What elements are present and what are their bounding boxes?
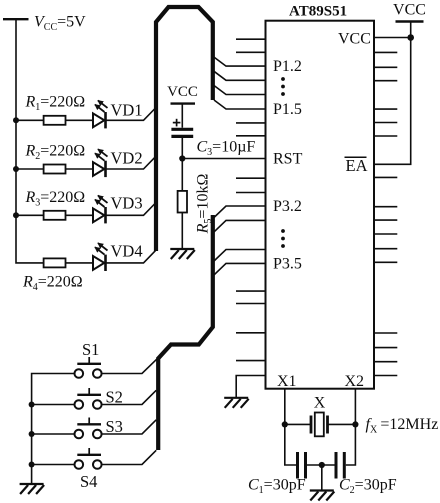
node junction dot switch rail S4: [29, 462, 35, 468]
wire X1 to crystal: [285, 423, 311, 425]
LED VD2: [93, 149, 108, 177]
node VCC bar (reset circuit): [171, 102, 196, 104]
svg-text:VCC: VCC: [393, 2, 426, 19]
crystal X: [311, 413, 328, 437]
pin stub left 10: [236, 360, 266, 362]
svg-text:VD1: VD1: [111, 101, 143, 120]
node junction dot rail R3: [13, 212, 19, 218]
pin stub right 15: [374, 361, 397, 363]
node junction dot switch rail S3: [29, 431, 35, 437]
wire rail to R2: [16, 168, 44, 170]
switch S1: [75, 357, 102, 378]
svg-text:C2=30pF: C2=30pF: [339, 477, 397, 497]
node VCC supply bar top-left: [3, 18, 29, 20]
svg-text:P3.2: P3.2: [273, 198, 302, 215]
wire pin P3.2 to bus: [214, 206, 266, 218]
pin stub right 12: [374, 261, 397, 263]
label P3 ellipsis dots: [281, 229, 285, 248]
ground (IC GND pin): [224, 398, 249, 408]
wire C3 to node: [181, 136, 183, 158]
svg-text:VCC: VCC: [338, 31, 371, 48]
wire VCC bar to C3: [181, 104, 183, 128]
wire node to RST pin: [182, 158, 265, 160]
LED VD1: [93, 101, 108, 129]
pin stub right 16: [374, 375, 397, 377]
resistor R2: [44, 165, 66, 174]
node reset junction dot: [179, 155, 185, 161]
switch S2: [75, 388, 102, 409]
wire rail to S4: [32, 464, 75, 466]
svg-text:VD2: VD2: [111, 149, 143, 168]
resistor R1: [44, 116, 66, 125]
resistor R4: [44, 258, 66, 267]
wire VCC rail down to EA: [374, 22, 411, 165]
wire bus lower bundle (P3 side down to switches): [158, 215, 213, 450]
wire pin P3.3 to bus: [214, 220, 266, 232]
capacitor C1: [298, 452, 306, 479]
wire C1 to center node: [307, 464, 335, 466]
pin stub right 4: [374, 108, 397, 110]
wire R1 to VD1: [66, 119, 94, 121]
wire GND pin to ground: [236, 376, 265, 398]
LED VD4: [93, 243, 108, 271]
wire R5 to ground: [181, 213, 183, 250]
wire pin P3.4 to bus: [214, 250, 266, 262]
wire rail to S2: [32, 404, 75, 406]
pin stub left 2: [236, 51, 266, 53]
svg-text:P1.2: P1.2: [273, 58, 302, 75]
svg-text:P3.5: P3.5: [273, 256, 302, 273]
svg-text:fX =12MHz: fX =12MHz: [366, 416, 439, 436]
capacitor C3 polarity plus: [173, 119, 181, 127]
svg-text:EA: EA: [346, 156, 368, 175]
wire rail to R3: [16, 214, 44, 216]
wire R4 to VD4: [66, 262, 94, 264]
svg-text:VD3: VD3: [111, 194, 143, 213]
wire VD2 to bus: [106, 157, 156, 169]
wire center node to ground: [321, 465, 323, 491]
resistor R5: [178, 191, 187, 213]
capacitor C3: [171, 129, 193, 136]
pin stub right 9: [374, 219, 397, 221]
svg-text:R1=220Ω: R1=220Ω: [25, 94, 86, 114]
resistor R3: [44, 211, 66, 220]
node VCC bar (top right): [396, 20, 424, 22]
node junction dot switch rail S2: [29, 402, 35, 408]
node junction dot caps center: [319, 462, 325, 468]
LED VD3: [93, 196, 108, 224]
wire X1 pin down: [284, 389, 286, 425]
pin stub left 4: [236, 135, 266, 137]
wire VD3 to bus: [106, 203, 156, 215]
svg-text:C3=10µF: C3=10µF: [197, 139, 256, 159]
svg-text:R5=10kΩ: R5=10kΩ: [195, 174, 215, 235]
wire X2 pin down: [354, 389, 356, 425]
pin stub right 7: [374, 176, 397, 178]
svg-text:VD4: VD4: [111, 242, 143, 261]
pin stub right 10: [374, 233, 397, 235]
svg-text:VCC: VCC: [167, 84, 198, 100]
pin stub right 14: [374, 347, 397, 349]
pin stub left 7: [236, 290, 266, 292]
pin stub right 8: [374, 206, 397, 208]
svg-text:R3=220Ω: R3=220Ω: [25, 189, 86, 209]
IC U1 AT89S51 body: [266, 21, 375, 389]
pin stub left 6: [236, 192, 266, 194]
svg-text:R4=220Ω: R4=220Ω: [22, 274, 83, 294]
wire S2 to bus: [102, 390, 157, 404]
pin stub right 3: [374, 80, 397, 82]
wire pin P3.5 to bus: [214, 263, 266, 275]
wire bus loop (thick bundle, LEDs side over top to P1 side): [156, 7, 213, 251]
ground (reset circuit): [170, 249, 195, 259]
ground (oscillator): [310, 491, 335, 501]
svg-text:AT89S51: AT89S51: [289, 4, 347, 20]
svg-text:R2=220Ω: R2=220Ω: [25, 143, 86, 163]
pin stub right 13: [374, 332, 397, 334]
wire X1 node down to C1: [285, 424, 296, 465]
label P1 ellipsis dots: [281, 77, 285, 96]
ground (switch rail): [20, 484, 44, 494]
wire crystal to X2: [328, 423, 356, 425]
pin stub left 8: [236, 303, 266, 305]
svg-text:S3: S3: [106, 417, 123, 436]
capacitor C2: [336, 452, 344, 479]
wire rail to R1: [16, 119, 44, 121]
node junction dot VCC rail: [407, 34, 414, 41]
svg-text:RST: RST: [273, 151, 303, 168]
svg-text:X: X: [314, 395, 326, 412]
svg-text:VCC=5V: VCC=5V: [34, 14, 86, 34]
pin stub left 9: [236, 332, 266, 334]
pin stub right 5: [374, 122, 397, 124]
wire C2 to X2 node: [346, 424, 356, 465]
wire VCC left rail: [16, 19, 44, 263]
wire switch rail to S1: [32, 374, 75, 485]
wire pin P1.3 to bus: [214, 71, 266, 80]
wire VCC pin to rail: [374, 37, 411, 39]
pin stub right 6: [374, 135, 397, 137]
wire S3 to bus: [102, 420, 157, 434]
node junction dot X2: [352, 421, 358, 427]
pin stub left 1: [236, 38, 266, 40]
svg-text:C1=30pF: C1=30pF: [248, 477, 306, 497]
node junction dot X1: [282, 421, 288, 427]
switch S3: [75, 418, 102, 439]
node junction dot rail R2: [13, 166, 19, 172]
svg-text:S4: S4: [80, 472, 97, 491]
pin stub right 2: [374, 66, 397, 68]
svg-text:S2: S2: [106, 388, 123, 407]
wire pin P1.2 to bus: [214, 57, 266, 66]
pin stub left 3: [236, 122, 266, 124]
wire S4 to bus: [102, 450, 157, 464]
pin stub right 11: [374, 248, 397, 250]
wire VD4 to bus: [106, 251, 156, 263]
wire R2 to VD2: [66, 168, 94, 170]
svg-text:P1.5: P1.5: [273, 101, 302, 118]
wire rail to S3: [32, 433, 75, 435]
svg-text:X2: X2: [345, 373, 365, 390]
svg-text:X1: X1: [277, 373, 297, 390]
wire S1 to bus: [102, 359, 157, 373]
node junction dot rail R1: [13, 117, 19, 123]
wire pin P1.5 to bus: [214, 100, 266, 109]
switch S4: [75, 448, 102, 469]
wire R3 to VD3: [66, 214, 94, 216]
wire pin P1.4 to bus: [214, 86, 266, 95]
wire VD1 to bus: [106, 108, 156, 120]
svg-text:S1: S1: [82, 340, 99, 359]
pin stub left 5: [236, 177, 266, 179]
wire node to R5: [181, 159, 183, 191]
pin stub right 1: [374, 51, 397, 53]
